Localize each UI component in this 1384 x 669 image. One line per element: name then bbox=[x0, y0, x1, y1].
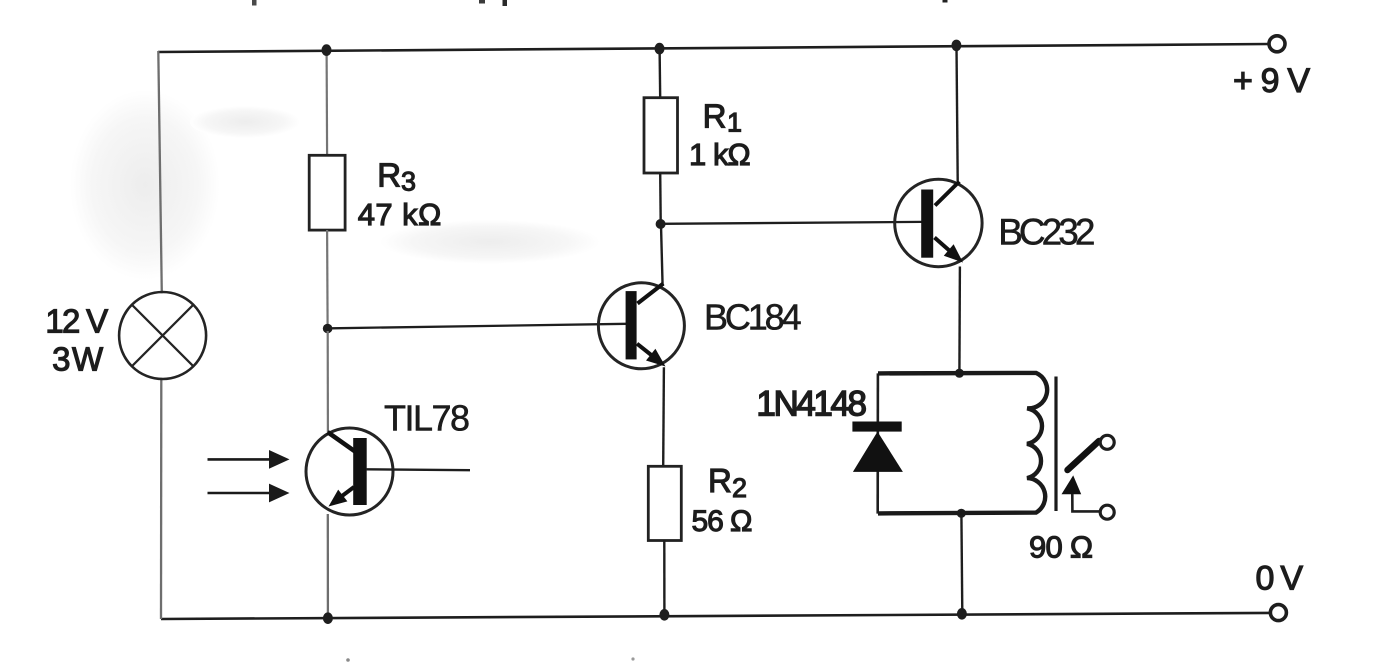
wire top +9V rail bbox=[158, 44, 1269, 52]
node bottom rail / relay branch bbox=[957, 608, 967, 620]
wire junction to BC184 collector bbox=[661, 225, 663, 286]
svg-text:R: R bbox=[703, 98, 727, 135]
phototransistor TIL78 bbox=[306, 428, 470, 515]
resistor R1 bbox=[644, 98, 678, 173]
relay coil RL1 90 ohm with top and bottom loop wires bbox=[878, 373, 1047, 514]
wire lamp branch upper bbox=[158, 51, 162, 293]
wire R3 bottom bbox=[326, 230, 329, 326]
wire relay bottom to 0V rail bbox=[960, 514, 963, 614]
scan speck below bottom rail right bbox=[631, 657, 634, 660]
node relay top bbox=[955, 369, 964, 378]
wire R3 top bbox=[326, 51, 329, 156]
scan speck below bottom rail left bbox=[346, 658, 350, 662]
wire TIL78 emitter to bottom rail bbox=[327, 514, 329, 618]
svg-text:+ 9 V: + 9 V bbox=[1233, 62, 1310, 100]
wire bottom 0V rail bbox=[161, 613, 1271, 619]
svg-text:3: 3 bbox=[401, 167, 416, 197]
node junction R3/TIL78/base wire bbox=[323, 324, 333, 334]
lamp LP1 12V 3W bbox=[119, 292, 206, 379]
transistor BC232 bbox=[895, 179, 982, 266]
svg-text:TIL78: TIL78 bbox=[384, 398, 470, 439]
wire junction to TIL78 collector bbox=[327, 331, 329, 432]
terminal 0V bbox=[1270, 605, 1286, 621]
wire lamp branch lower bbox=[160, 378, 163, 619]
node junction R1/BC184 collector/BC232 base bbox=[656, 219, 666, 229]
relay switch contact bbox=[1062, 435, 1115, 519]
terminal +9V bbox=[1269, 36, 1285, 52]
wire BC232 emitter down bbox=[958, 267, 961, 374]
node bottom rail / TIL78 emitter bbox=[323, 612, 333, 624]
svg-text:47 kΩ: 47 kΩ bbox=[358, 197, 442, 232]
svg-text:3W: 3W bbox=[52, 340, 104, 377]
svg-text:1: 1 bbox=[727, 108, 742, 138]
node top rail / R3 branch bbox=[322, 44, 332, 56]
svg-text:2: 2 bbox=[732, 473, 747, 503]
wire BC232 collector from top rail bbox=[957, 47, 958, 182]
svg-text:1 kΩ: 1 kΩ bbox=[689, 137, 751, 172]
light arrow 1 bbox=[208, 450, 290, 469]
wire diode branch left vertical bbox=[876, 373, 879, 513]
node top rail / R1 branch bbox=[655, 43, 665, 55]
resistor R3 bbox=[309, 155, 345, 230]
wire R1 bottom bbox=[659, 173, 662, 224]
svg-text:BC232: BC232 bbox=[998, 212, 1095, 253]
svg-text:BC184: BC184 bbox=[704, 297, 802, 338]
svg-text:R: R bbox=[377, 157, 401, 194]
wire junction to BC232 base bbox=[661, 222, 922, 224]
resistor R2 bbox=[648, 466, 681, 540]
wire R2 bottom bbox=[663, 540, 666, 615]
scan fragment marks at top edge bbox=[252, 0, 257, 6]
relay core line bbox=[1054, 377, 1057, 512]
wire BC184 emitter to R2 bbox=[662, 367, 665, 467]
wire R1 top bbox=[658, 49, 661, 99]
wire base line to BC184 bbox=[332, 324, 627, 329]
svg-text:90 Ω: 90 Ω bbox=[1029, 530, 1093, 565]
svg-text:R: R bbox=[708, 462, 732, 499]
svg-text:56 Ω: 56 Ω bbox=[692, 505, 753, 538]
svg-text:0 V: 0 V bbox=[1256, 560, 1304, 598]
node relay bottom bbox=[957, 509, 966, 518]
light arrow 2 bbox=[208, 484, 290, 503]
svg-text:1N4148: 1N4148 bbox=[756, 385, 867, 424]
transistor BC184 bbox=[598, 283, 684, 369]
node bottom rail / R2 bbox=[659, 609, 669, 621]
diode 1N4148 bbox=[852, 422, 903, 472]
node top rail / BC232 collector branch bbox=[951, 40, 961, 52]
svg-text:12 V: 12 V bbox=[45, 302, 108, 339]
